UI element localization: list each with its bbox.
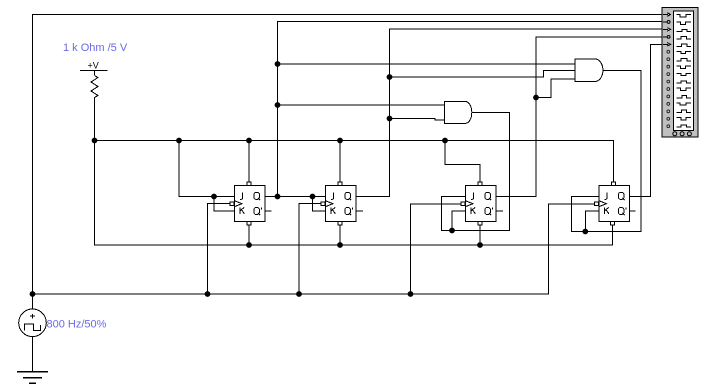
analyzer waveform trace ch7 — [677, 59, 692, 61]
pin label J — [471, 192, 473, 199]
wire Q3 to AND2 input C — [536, 79, 575, 98]
analyzer bottom connector 2 — [680, 132, 684, 136]
pin label K — [604, 207, 609, 213]
wire FF2 Q-bar stub — [356, 210, 364, 212]
analyzer terminal pin 4 (circle) — [663, 36, 667, 38]
pin label Q — [254, 192, 260, 199]
wire FF3 clock to clock bus — [411, 204, 462, 294]
wire FF3 Q-bar stub — [496, 210, 504, 212]
pin label J — [605, 192, 607, 199]
analyzer bottom connector 1 — [673, 132, 677, 136]
analyzer terminal pin 8 (unconnected) — [667, 65, 670, 68]
wire +V bus to FF1 preset — [248, 141, 250, 183]
analyzer waveform trace ch2 — [677, 22, 692, 24]
node junction — [296, 291, 302, 297]
node junction — [337, 138, 343, 144]
wire Q2 to AND2 input B — [390, 71, 576, 78]
wire +V bus to FF1 J input — [179, 141, 235, 197]
node junction — [477, 242, 483, 248]
pin label Q — [345, 192, 351, 199]
svg-text:1 k Ohm /5 V: 1 k Ohm /5 V — [63, 42, 128, 54]
node junction — [449, 228, 455, 234]
analyzer terminal pin 2 (circle) — [663, 21, 667, 23]
pin label J — [331, 192, 333, 199]
pin label Q' — [618, 208, 624, 215]
analyzer terminal pin 3 (arrow) — [663, 28, 671, 32]
analyzer waveform trace ch5 — [677, 44, 692, 46]
wire clock bus to FF4 clock input — [33, 204, 596, 294]
wire +V bus to FF3 preset — [445, 141, 480, 183]
wire FF2 clock to clock bus — [299, 204, 321, 294]
clock source V1 800 Hz square wave — [19, 309, 47, 337]
node junction — [582, 229, 588, 235]
wire FF1 clock to clock bus — [208, 204, 231, 294]
ground symbol below clock source — [17, 372, 48, 384]
analyzer waveform trace ch6 — [677, 51, 692, 53]
node junction — [275, 102, 281, 108]
wire FF2 J-K tie — [313, 197, 326, 212]
wire FF4 K tie to J loop — [585, 211, 599, 232]
wire FF2 Q up to analyzer CH3 — [356, 29, 668, 197]
analyzer terminal pin 10 (unconnected) — [667, 80, 670, 83]
wire +V bus to FF2 preset — [339, 141, 341, 183]
analyzer waveform trace ch15 — [677, 118, 692, 120]
pin label K — [240, 207, 245, 213]
wire FF2 clear to clear bus — [339, 226, 341, 246]
JK flip-flop U2 — [321, 182, 356, 225]
wire FF1 J-K tie — [214, 197, 235, 212]
JK flip-flop U3 — [461, 182, 496, 225]
JK flip-flop U1 — [230, 182, 265, 225]
JK flip-flop U4 — [595, 182, 630, 225]
analyzer bottom connector 3 — [687, 132, 691, 136]
logic analyzer instrument — [662, 8, 698, 138]
wire Q2 to AND1 input B — [390, 119, 445, 121]
analyzer waveform trace ch9 — [677, 73, 692, 75]
wire +V bus to FF4 preset — [95, 141, 614, 186]
node junction — [176, 138, 182, 144]
svg-text:+V: +V — [88, 61, 99, 71]
node junction — [30, 291, 36, 297]
node junction — [387, 116, 393, 122]
analyzer terminal pin 1 (arrow) — [663, 13, 671, 17]
pin label K — [471, 207, 476, 213]
pin label Q' — [254, 208, 260, 215]
node junction — [92, 138, 98, 144]
pin label K — [331, 207, 336, 213]
node junction — [246, 138, 252, 144]
analyzer waveform trace ch14 — [677, 110, 692, 112]
analyzer waveform trace ch3 — [677, 29, 692, 31]
analyzer terminal pin 9 (unconnected) — [667, 73, 670, 76]
analyzer waveform trace ch1 — [677, 15, 692, 17]
analyzer terminal pin 15 (unconnected) — [667, 117, 670, 120]
wire AND2 output to FF4 J input — [571, 71, 641, 232]
node junction — [442, 138, 448, 144]
pin label Q' — [345, 208, 351, 215]
wire FF3 clear to clear bus — [479, 226, 481, 246]
pin label Q — [485, 192, 491, 199]
wire AND1 output to FF3 J input — [442, 113, 510, 231]
pin label J — [240, 192, 242, 199]
wire FF4 Q up to analyzer CH5 — [630, 45, 668, 197]
pin label Q — [618, 192, 624, 199]
node junction — [310, 194, 316, 200]
analyzer waveform trace ch11 — [677, 88, 692, 90]
analyzer waveform trace ch8 — [677, 66, 692, 68]
node junction — [533, 95, 539, 101]
wire clock source to ground — [32, 337, 34, 372]
analyzer terminal pin 7 (unconnected) — [667, 58, 670, 61]
node junction — [275, 194, 281, 200]
node junction — [275, 61, 281, 67]
wire FF1 Q to FF2 J — [266, 196, 326, 198]
node junction — [408, 291, 414, 297]
analyzer terminal pin 16 (unconnected) — [667, 125, 670, 128]
resistor R1 1 kOhm pull-up with +V supply — [80, 61, 108, 141]
node junction — [246, 242, 252, 248]
wire FF4 Q-bar stub — [630, 210, 636, 212]
AND gate U5 (2-input, feeds FF3) — [445, 102, 472, 124]
wire clear bus from +V bus to FF4 clear — [95, 141, 613, 246]
wire FF1 Q-bar stub — [266, 210, 272, 212]
analyzer terminal pin 14 (unconnected) — [667, 110, 670, 113]
wire Q1 up to analyzer CH2 — [278, 22, 668, 197]
analyzer waveform trace ch12 — [677, 95, 692, 97]
node junction — [211, 194, 217, 200]
analyzer terminal pin 11 (unconnected) — [667, 88, 670, 91]
AND gate U6 (3-input, feeds FF4) — [575, 59, 603, 81]
analyzer terminal pin 12 (unconnected) — [667, 95, 670, 98]
svg-text:800 Hz/50%: 800 Hz/50% — [47, 319, 107, 331]
analyzer terminal pin 5 (arrow) — [663, 43, 671, 47]
analyzer terminal pin 6 (unconnected) — [667, 50, 670, 53]
node junction — [205, 291, 211, 297]
wire Q1 to AND1 input A — [278, 104, 445, 106]
wire FF3 Q up to analyzer CH4 — [496, 37, 668, 197]
wire FF3 K tie to J loop — [452, 211, 466, 231]
pin label Q' — [485, 208, 491, 215]
analyzer waveform trace ch16 — [677, 125, 692, 127]
node junction — [387, 74, 393, 80]
analyzer waveform trace ch13 — [677, 103, 692, 105]
wire FF1 clear to clear bus — [248, 226, 250, 246]
analyzer waveform trace ch4 — [677, 37, 692, 39]
analyzer terminal pin 13 (unconnected) — [667, 103, 670, 106]
wire clock net: source up left side and across top to analyzer CH1 — [33, 15, 668, 310]
node junction — [337, 242, 343, 248]
wire Q1 to AND2 input A — [278, 63, 576, 65]
analyzer waveform trace ch10 — [677, 81, 692, 83]
